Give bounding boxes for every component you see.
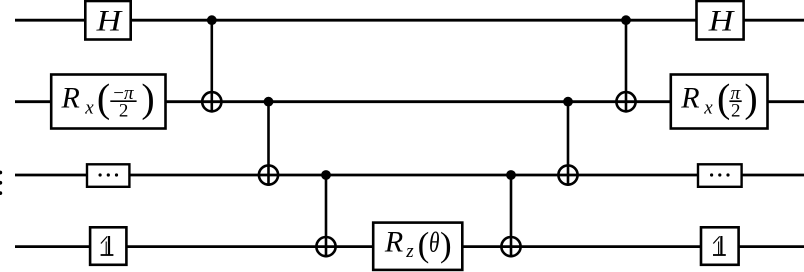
gate H (right) on q1 (697, 1, 744, 40)
svg-text:x: x (84, 98, 94, 119)
wire q1 (15, 19, 804, 22)
CNOT3 target on q4 (316, 237, 335, 256)
svg-text:H: H (96, 4, 124, 37)
wire CNOT5 vertical q2->q3 (567, 102, 570, 186)
svg-text:x: x (703, 98, 713, 119)
gate Rz(theta) on q4 (373, 223, 462, 270)
CNOT5 target on q3 (558, 165, 577, 184)
control dot CNOT1 on q1 (207, 15, 217, 25)
CNOT4 target on q4 (501, 237, 520, 256)
gate H (left) on q1 (85, 1, 130, 40)
svg-text:(: ( (418, 225, 430, 264)
gate Rx(pi/2) on q2 (671, 75, 768, 129)
control dot CNOT3 on q3 (321, 170, 331, 180)
svg-text:θ: θ (429, 227, 440, 259)
gate Rx(-pi/2) on q2 (51, 75, 165, 129)
svg-text:R: R (384, 226, 403, 259)
wire CNOT1 vertical q1->q2 (211, 20, 214, 112)
CNOT1 target on q2 (202, 92, 221, 111)
CNOT6 target on q2 (616, 92, 635, 111)
wire CNOT4 vertical q3->q4 (510, 175, 513, 258)
gate ... (left) on q3 (87, 164, 129, 187)
wire q4 (15, 245, 804, 248)
svg-text:): ) (744, 75, 757, 120)
svg-text:R: R (680, 81, 699, 114)
control dot CNOT6 on q1 (621, 15, 631, 25)
svg-text:(: ( (97, 75, 110, 120)
wire CNOT3 vertical q3->q4 (325, 175, 328, 258)
wire CNOT2 vertical q2->q3 (267, 102, 270, 186)
svg-text:2: 2 (731, 100, 741, 121)
gate identity 1 (left) on q4 (90, 227, 126, 264)
svg-text:): ) (440, 225, 452, 264)
wire q3 (15, 174, 804, 177)
control dot CNOT2 on q2 (264, 97, 274, 107)
svg-text:H: H (708, 4, 736, 37)
control dot CNOT5 on q2 (563, 97, 573, 107)
gate identity 1 (right) on q4 (701, 227, 739, 264)
wire q2 (15, 100, 804, 103)
wire CNOT6 vertical q1->q2 (625, 20, 628, 112)
svg-text:z: z (405, 241, 414, 262)
gate ... (right) on q3 (698, 164, 742, 187)
svg-text:): ) (141, 75, 154, 120)
control dot CNOT4 on q3 (506, 170, 516, 180)
svg-text:2: 2 (119, 100, 129, 121)
svg-text:R: R (61, 81, 80, 114)
CNOT2 target on q3 (259, 165, 278, 184)
vertical dots (ellipsis) at left edge (0, 171, 2, 195)
svg-text:(: ( (717, 75, 730, 120)
